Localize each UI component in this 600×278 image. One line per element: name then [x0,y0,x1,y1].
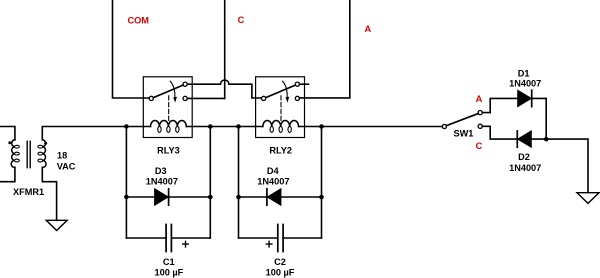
ground (right) [577,193,599,204]
switch SW1 contact A [478,111,482,115]
junction dots loop1 [124,124,129,129]
relay RLY3 arm [153,85,183,98]
junction dot D2 output [544,137,549,142]
svg-text:RLY2: RLY2 [269,145,292,155]
svg-text:1N4007: 1N4007 [146,176,178,186]
relay RLY3 lower contact [183,96,187,100]
wire main rail: RLY2 coil to SW1 common [299,126,443,128]
transformer XFMR1 secondary winding [42,140,46,168]
svg-text:100 µF: 100 µF [266,268,295,278]
relay RLY3 link (dashed) [168,96,170,121]
relay RLY2 box [256,77,305,138]
wire D4/C2 loop right vertical [321,127,323,239]
svg-text:D2: D2 [518,152,530,162]
transformer core [27,141,30,167]
relay RLY2 coil [263,120,299,126]
wire D3/C1 loop left vertical [125,127,127,239]
diode D1 [518,90,532,106]
svg-text:18: 18 [57,150,67,160]
wire COM vertical drop to RLY3 common [113,0,150,98]
diode D2 [518,131,532,147]
svg-text:100 µF: 100 µF [155,268,184,278]
svg-text:SW1: SW1 [453,129,473,139]
wire SW1 contact C to D2 [482,126,546,139]
capacitor C1 [126,237,210,239]
junction dots loop2 [236,124,241,129]
secondary winding crossover loops [38,145,43,148]
capacitor C2 polarity + [266,241,272,247]
relay RLY2 common contact [262,96,266,100]
wire main rail: transformer secondary top to RLY3 coil [42,127,150,140]
svg-text:A: A [364,24,371,34]
diode D4 [267,189,281,205]
wire A vertical drop to RLY2 lower contact [299,0,349,98]
svg-text:C1: C1 [163,257,175,267]
diode D3 [155,189,169,205]
ground (transformer secondary) [46,220,67,230]
transformer phase dot (secondary) [44,142,47,145]
relay RLY3 upper contact [183,82,187,86]
svg-text:D1: D1 [518,68,530,78]
wire main rail: RLY3 coil to RLY2 coil [186,126,262,128]
svg-text:COM: COM [127,15,149,25]
wire junction to right ground [546,139,588,193]
relay RLY2 arm [266,85,296,98]
wire D4/C2 loop left vertical [238,127,240,239]
switch SW1 arm [446,114,478,126]
wire transformer secondary bottom to ground [42,167,56,220]
svg-text:1N4007: 1N4007 [509,163,541,173]
diode D4 rung [239,196,322,198]
switch SW1 common terminal [442,124,446,128]
relay RLY3 common contact [149,96,153,100]
relay RLY2 actuation arrow [283,81,288,97]
diode D3 rung [126,196,210,198]
wire transformer primary bottom lead [0,167,15,181]
svg-text:C: C [238,15,245,25]
wire D3/C1 loop right vertical [209,127,211,239]
wire SW1 contact A to D1 [482,98,546,112]
wire C vertical drop [224,0,226,98]
svg-text:1N4007: 1N4007 [257,176,289,186]
wire D1 cathode to D2 junction [545,98,547,139]
relay RLY3 box [143,77,192,138]
transformer XFMR1 primary winding [11,140,15,168]
wire RLY2 upper contact stub [299,83,308,85]
svg-text:D3: D3 [155,166,167,176]
relay RLY2 upper contact [295,82,299,86]
capacitor C1 polarity + [183,241,189,247]
capacitor C2 [239,237,322,239]
svg-text:1N4007: 1N4007 [509,79,541,89]
relay RLY3 actuation arrow [170,81,175,97]
svg-text:XFMR1: XFMR1 [13,187,44,197]
wire RLY3 upper contact to RLY2 common with hop over C net [187,80,261,98]
relay RLY2 lower contact [295,96,299,100]
svg-text:D4: D4 [267,166,280,176]
svg-text:C2: C2 [274,257,286,267]
wire transformer primary top lead [0,127,15,140]
relay RLY3 coil [151,120,187,126]
svg-text:RLY3: RLY3 [157,145,180,155]
switch SW1 contact C [478,124,482,128]
wire RLY3 lower contact to C net [187,97,224,99]
svg-text:C: C [476,141,483,151]
svg-text:A: A [476,94,483,104]
primary winding crossover loops [15,145,20,148]
relay RLY2 link (dashed) [280,96,282,121]
svg-text:VAC: VAC [57,162,76,172]
transformer phase dot (primary) [8,141,11,144]
